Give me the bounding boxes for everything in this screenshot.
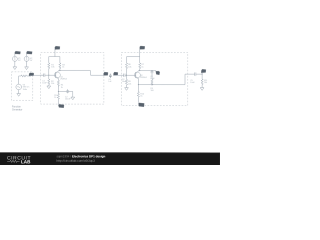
capacitor C2 bypass	[58, 89, 72, 97]
flag input net	[29, 73, 34, 76]
wire rail2 to R6	[126, 57, 128, 63]
svg-text:5V: 5V	[18, 60, 21, 62]
svg-text:10k: 10k	[51, 66, 54, 68]
wire V3 bottom to ground	[18, 90, 20, 94]
resistor R4 emitter	[57, 80, 59, 86]
svg-text:1uF: 1uF	[108, 81, 112, 83]
svg-text:Generator: Generator	[12, 108, 23, 111]
flag output net	[201, 73, 203, 74]
svg-text:1k: 1k	[61, 87, 63, 89]
node collector R7	[139, 70, 140, 71]
svg-text:10uF: 10uF	[42, 83, 47, 85]
voltage source V2	[24, 56, 29, 61]
node emitter divider	[58, 91, 59, 92]
wire R2 to ground	[48, 84, 50, 87]
svg-text:1kHz: 1kHz	[23, 89, 28, 91]
junction	[30, 75, 31, 76]
wire collector output	[58, 71, 104, 76]
svg-text:LAB: LAB	[21, 159, 31, 164]
wire base node2 to R8	[126, 75, 128, 79]
svg-text:10k: 10k	[204, 82, 207, 84]
ground under V2	[25, 67, 29, 70]
wire V2 to ground	[26, 61, 28, 66]
flag net on V2	[27, 51, 33, 54]
wire resistor to flag node	[27, 75, 30, 77]
resistor R12 (source impedance)	[21, 75, 27, 77]
svg-text:2N3904: 2N3904	[60, 79, 67, 81]
wire R5 down through box edge	[57, 100, 59, 106]
wire flag pole to rail2	[139, 49, 141, 56]
node collector C4 column	[151, 70, 152, 71]
resistor R2	[48, 79, 50, 85]
svg-text:100: 100	[150, 90, 153, 92]
wire to amplifier input	[30, 74, 44, 77]
flag VCC stage2	[140, 46, 145, 49]
wire R3 to collector node	[59, 69, 61, 71]
flag net below box 2	[138, 103, 144, 107]
resistor R11 load	[201, 74, 203, 79]
wire V1 to ground	[14, 61, 16, 66]
capacitor C3 input coupling 2	[124, 74, 136, 77]
ground under R8	[125, 88, 129, 91]
svg-text:5V: 5V	[30, 60, 33, 62]
flag stage1 output	[104, 72, 108, 75]
ground under R2	[47, 86, 51, 89]
wire collector2 across	[138, 70, 156, 72]
svg-text:1k: 1k	[141, 66, 143, 68]
flag VCC stage1	[55, 46, 60, 49]
svg-text:1k: 1k	[62, 66, 64, 68]
node collector R3	[59, 70, 60, 71]
svg-text:100uF: 100uF	[65, 99, 71, 101]
voltage source V1	[12, 56, 17, 61]
ground under R11	[200, 88, 204, 91]
wire emitter node across	[138, 74, 194, 85]
ground under V3	[17, 94, 21, 97]
svg-text:Function: Function	[12, 106, 22, 109]
resistor R6	[125, 63, 127, 69]
resistor R7 collector2	[139, 63, 141, 69]
dashed box stage 1	[41, 53, 104, 105]
transistor Q1	[54, 72, 60, 78]
wire flag pole to rail	[54, 49, 56, 56]
node emitter wire junction	[138, 84, 139, 85]
node output	[202, 74, 203, 75]
node base junction	[48, 75, 49, 76]
resistor R5 lower emitter	[57, 91, 59, 93]
wire rail to R1	[48, 57, 50, 63]
svg-text:10k: 10k	[51, 83, 54, 85]
resistor R1	[48, 63, 50, 69]
wire rail to R3	[59, 57, 61, 63]
flag stage2 input	[114, 72, 118, 75]
wire R4 to mid node	[57, 85, 59, 91]
wire into stage 2	[114, 74, 124, 76]
wire R10 down through box edge	[137, 98, 139, 103]
flag collector net	[155, 70, 157, 73]
wire R1 to base node	[48, 69, 50, 75]
ground under C2	[71, 97, 75, 100]
dashed box stage 2	[121, 52, 188, 105]
svg-text:2N3904: 2N3904	[140, 77, 147, 79]
source V3 sine	[16, 84, 22, 90]
capacitor C4	[151, 71, 154, 80]
svg-text:10uF: 10uF	[190, 82, 195, 84]
wire R6 to base node2	[126, 69, 128, 75]
capacitor small mid element	[109, 74, 112, 78]
resistor R3 collector	[59, 63, 61, 69]
wire supply rail	[49, 56, 60, 58]
ground under V1	[13, 67, 17, 70]
svg-text:1k: 1k	[140, 96, 142, 98]
flag VCC net on V1	[15, 51, 21, 54]
dashed box signal generator	[11, 72, 32, 101]
capacitor C1 input coupling	[41, 73, 56, 76]
svg-text:10k: 10k	[128, 66, 131, 68]
wire V2 flag pole	[26, 54, 28, 57]
wire R8 to ground	[125, 86, 127, 88]
wire R11 to ground	[201, 85, 203, 88]
resistor R10 emitter2	[137, 85, 139, 92]
svg-text:http://circuitlab.com/c6t3qc3: http://circuitlab.com/c6t3qc3	[56, 159, 95, 163]
wire V3 top to resistor	[19, 76, 21, 84]
transistor Q2	[134, 72, 140, 78]
node base junction 2	[126, 75, 127, 76]
flag feedback net below box	[58, 104, 64, 107]
wire V1 flag pole	[14, 54, 16, 57]
wire supply rail2	[127, 56, 140, 58]
resistor R8	[125, 79, 127, 85]
svg-text:1k: 1k	[54, 97, 56, 99]
wire base node to R2	[48, 75, 50, 79]
svg-text:10k: 10k	[128, 83, 131, 85]
resistor R9 below C4	[151, 79, 153, 85]
wire R7 leads	[139, 57, 141, 71]
capacitor C5 output coupling	[195, 72, 203, 75]
